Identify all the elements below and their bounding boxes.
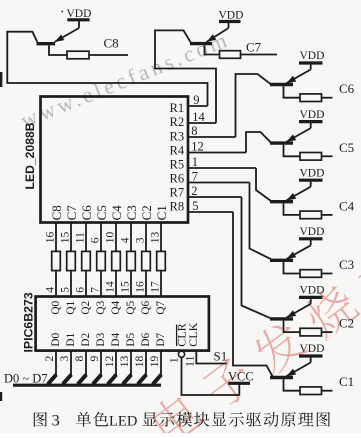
U2 pin 2 lead [55,351,57,376]
svg-text:R7: R7 [170,185,185,199]
U2 pin 9 lead [100,351,102,376]
svg-text:C6: C6 [339,81,355,96]
resistor RC6 (column C6) [82,251,91,270]
resistor R_C2 [300,328,322,336]
svg-text:D6: D6 [140,332,152,346]
bus ribbon slash to pin 19 [153,375,162,385]
svg-text:15: 15 [59,231,71,243]
svg-text:R1: R1 [170,101,185,115]
U1 pin 14 [188,122,216,124]
wire resistor to U2 Q2 (pin 6) [85,271,87,297]
transistor Q3 (PNP driver) [270,239,311,260]
svg-text:C5: C5 [339,140,354,155]
svg-text:Q3: Q3 [95,300,107,314]
transistor Q6 (PNP driver) [270,63,311,85]
wire R7(pin2) to Q2 base [242,197,271,318]
wire R4(pin12) to Q5 base [246,132,271,153]
wire Q5 collector [284,145,301,157]
svg-text:VDD: VDD [300,285,325,297]
U1 pin 9 [188,105,208,107]
bus ribbon slash to pin 3 [63,375,72,385]
svg-text:2: 2 [191,184,197,198]
svg-text:Q0: Q0 [50,300,62,314]
wire U1 C4 (pin 10) to resistor [115,223,117,252]
resistor R_C3 [300,270,322,278]
U2 pin 13 lead [130,351,132,376]
svg-text:C7: C7 [64,205,79,221]
resistor R_C6 [300,94,322,102]
svg-text:Q5: Q5 [125,300,137,314]
svg-text:16: 16 [134,281,146,293]
svg-text:VDD: VDD [300,109,325,121]
resistor RC2 (column C2) [142,251,151,270]
wire U1 C1 (pin 13) to resistor [160,223,162,252]
svg-text:18: 18 [134,356,146,368]
wire to C4 output [322,214,333,216]
svg-text:VDD: VDD [219,10,244,22]
wire R2(pin14) to Q7 base [155,30,216,123]
svg-text:6: 6 [89,237,101,243]
svg-text:R6: R6 [170,171,185,185]
U1 pin 2 [188,196,242,198]
IC U2 IPIC6B273 (octal latch) [36,297,209,351]
svg-text:R3: R3 [170,129,185,143]
svg-text:VDD: VDD [300,343,325,355]
svg-text:D4: D4 [110,332,122,346]
U1 pin 7 [188,182,250,184]
wire U1 C7 (pin 15) to resistor [70,223,72,252]
U2 pin 12 lead [115,351,117,376]
resistor R_C5 [300,153,322,161]
svg-text:3: 3 [134,237,146,243]
svg-text:D3: D3 [95,332,107,346]
wire U1 C5 (pin 6) to resistor [100,223,102,252]
svg-text:3: 3 [52,411,60,429]
svg-text:Q2: Q2 [80,300,92,314]
svg-text:VDD: VDD [300,226,325,238]
bus ribbon slash to pin 9 [93,375,102,385]
svg-text:12: 12 [191,140,204,154]
svg-text:9: 9 [193,93,199,107]
U1 pin 1 [188,167,256,169]
wire Q4 collector [284,203,301,215]
svg-text:C1: C1 [339,374,354,389]
svg-text:C4: C4 [109,205,124,221]
wire Q2 collector [284,321,301,333]
transistor Q2 (PNP driver) [270,297,311,319]
svg-text:4: 4 [119,237,131,243]
wire Q6 collector [284,86,301,98]
IC U1 LED_2088B (display module) [41,97,189,223]
wire to C6 output [322,97,333,99]
svg-text:11: 11 [74,232,86,243]
svg-text:7: 7 [192,170,198,184]
svg-text:C1: C1 [154,205,169,220]
svg-text:CLK: CLK [186,322,200,346]
wire to C5 output [322,155,333,157]
wire to C7 output [241,54,278,56]
wire Q3 collector [284,262,301,274]
U1 pin 8 [188,136,236,138]
svg-text:3: 3 [59,356,71,362]
wire resistor to U2 Q3 (pin 7) [100,271,102,297]
svg-text:Q4: Q4 [110,300,122,314]
svg-text:8: 8 [74,356,86,362]
U1 pin 5 [188,211,233,213]
resistor RC8 (column C8) [52,251,61,270]
wire R6(pin7) to Q3 base [250,183,272,260]
svg-text:C2: C2 [139,205,154,220]
svg-text:2: 2 [44,356,56,362]
svg-text:R2: R2 [170,115,185,129]
svg-text:Q6: Q6 [140,300,152,314]
svg-text:R8: R8 [170,199,185,213]
wire U1 C6 (pin 11) to resistor [85,223,87,252]
resistor RC5 (column C5) [97,251,106,270]
U2 pin 3 lead [70,351,72,376]
wire Q7 collector [205,45,220,54]
svg-text:Q7: Q7 [155,300,167,314]
resistor RC3 (column C3) [127,251,136,270]
svg-text:R4: R4 [170,143,185,157]
U2 pin 19 lead [160,351,162,376]
resistor R_C4 [300,211,322,219]
svg-text:D0 ~ D7: D0 ~ D7 [4,372,48,386]
svg-text:R5: R5 [170,157,185,171]
U2 pin 8 lead [85,351,87,376]
wire resistor to U2 Q4 (pin 14) [115,271,117,297]
svg-text:1: 1 [192,155,198,169]
svg-text:7: 7 [89,287,101,293]
wire resistor to U2 Q6 (pin 16) [145,271,147,297]
svg-text:S1: S1 [214,349,228,364]
svg-text:8: 8 [191,124,197,138]
svg-text:15: 15 [119,281,131,293]
wire resistor to U2 Q5 (pin 15) [130,271,132,297]
svg-text:5: 5 [192,199,198,213]
wire to C3 output [322,273,333,275]
svg-text:D1: D1 [65,333,77,347]
transistor Q7 (PNP driver for C7) [190,22,229,44]
wire to C2 output [322,331,333,333]
resistor RC1 (column C1) [157,251,166,270]
svg-text:1: 1 [166,357,180,363]
wire U1 C3 (pin 4) to resistor [130,223,132,252]
resistor R_C1 [300,387,322,395]
svg-text:11: 11 [183,355,197,367]
svg-text:LED_2088B: LED_2088B [23,122,37,189]
svg-text:10: 10 [104,231,116,243]
resistor RC4 (column C4) [112,251,121,270]
resistor R_C7 [220,51,241,59]
svg-text:D0: D0 [50,332,62,346]
resistor RC7 (column C7) [67,251,76,270]
bus ribbon slash to pin 2 [48,375,57,385]
resistor R_C8 [67,51,89,59]
svg-text:6: 6 [74,287,86,293]
bus ribbon slash to pin 8 [78,375,87,385]
wire R3(pin8) to Q6 base [236,74,271,137]
transistor Q1 (PNP driver) [270,356,311,378]
svg-text:C3: C3 [124,205,139,220]
svg-text:VDD: VDD [300,50,325,62]
svg-text:C6: C6 [79,205,94,221]
wire R5(pin1) to Q4 base [256,168,272,201]
svg-text:D2: D2 [80,332,92,346]
svg-text:C8: C8 [49,205,64,220]
svg-text:13: 13 [119,356,131,368]
svg-text:C5: C5 [94,205,109,220]
wire CLR to VCC pull-up [182,357,240,395]
bus ribbon slash to pin 12 [108,375,117,385]
svg-text:12: 12 [104,356,116,368]
svg-text:C7: C7 [246,40,262,55]
svg-text:C2: C2 [339,316,354,331]
wire to C8 output [89,54,128,56]
wire R8(pin5) to Q1 base [233,212,273,377]
wire resistor to U2 Q7 (pin 17) [160,271,162,297]
svg-text:5: 5 [59,287,71,293]
svg-text:13: 13 [149,231,161,243]
bus ribbon slash to pin 13 [123,375,132,385]
svg-text:VDD: VDD [300,167,325,179]
svg-text:D5: D5 [125,332,137,346]
wire CLK to switch S1 [196,351,226,364]
svg-text:VCC: VCC [228,370,254,384]
U1 pin 12 [188,152,246,154]
svg-text:IPIC6B273: IPIC6B273 [21,292,35,352]
bus ribbon slash to pin 18 [138,375,147,385]
wire to C1 output [322,390,333,392]
wire Q8 collector [49,45,67,55]
U2 pin 18 lead [145,351,147,376]
svg-text:19: 19 [149,356,161,368]
svg-text:C3: C3 [339,257,354,272]
caption: 图3 单色LED显示模块显示驱动原理图 [34,412,47,427]
wire resistor to U2 Q1 (pin 5) [70,271,72,297]
svg-text:14: 14 [192,110,205,124]
svg-text:C4: C4 [339,198,355,213]
svg-text:4: 4 [44,287,56,293]
svg-text:16: 16 [44,231,56,243]
svg-text:LED: LED [109,413,137,429]
wire R1(pin9) to Q8 base [7,32,207,106]
wire resistor to U2 Q0 (pin 4) [55,271,57,297]
svg-text:17: 17 [149,281,161,293]
svg-text:Q1: Q1 [65,301,77,315]
bus line D0~D7 [13,384,161,387]
transistor Q8 (PNP driver for C8) [37,20,80,44]
U2 pin 1 (CLR) inversion bubble [178,351,184,357]
svg-text:14: 14 [104,281,116,293]
svg-text:D7: D7 [155,332,167,346]
svg-text:9: 9 [89,356,101,362]
wire U1 C8 (pin 16) to resistor [55,223,57,252]
transistor Q5 (PNP driver) [270,122,311,144]
transistor Q4 (PNP driver) [270,180,311,202]
wire U1 C2 (pin 3) to resistor [145,223,147,252]
svg-text:C8: C8 [104,36,119,51]
wire Q1 collector [284,379,301,391]
